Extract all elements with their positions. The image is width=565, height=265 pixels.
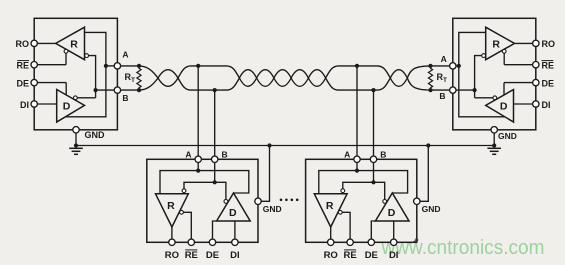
pin DI U1 <box>37 103 56 105</box>
node A junction U4 <box>355 169 359 173</box>
node stub A tap U4 <box>355 64 359 68</box>
wire twisted pair eyes middle <box>239 70 256 78</box>
wire pin B to node B U4 <box>373 163 375 183</box>
node bus A right junction <box>428 64 432 68</box>
node B junction U3 <box>213 180 217 184</box>
wire pin A to node A U4 <box>356 163 358 171</box>
wire DE to driver top edge U2 <box>503 83 505 95</box>
wire pin A of U1 to bus <box>121 65 139 67</box>
svg-text:GND: GND <box>85 130 106 140</box>
pin DE U3 <box>213 221 217 239</box>
receiver inverting input bubble U4 <box>341 189 345 193</box>
wire GND to ground bus U4 <box>420 146 428 202</box>
svg-text:RT: RT <box>125 72 136 84</box>
wire node A to pin A U1 <box>106 65 114 67</box>
op-amp D driver triangle U2 <box>486 90 514 123</box>
pin RE U2 <box>504 64 533 66</box>
wire driver inverting output bubble to node B net U1 <box>77 97 95 99</box>
wire receiver inverting input to node B U2 <box>475 56 482 98</box>
pin B U3 <box>212 156 218 162</box>
pin RO U3 <box>171 227 173 239</box>
pin RO U1 <box>37 42 55 44</box>
ground bus junction at U2 <box>492 143 496 147</box>
node bus A left junction <box>137 64 141 68</box>
ground bus junction U3 <box>267 143 271 147</box>
svg-text:D: D <box>229 207 237 219</box>
pin DE U4 <box>371 221 375 239</box>
op-amp R receiver triangle U2 <box>486 27 515 60</box>
svg-text:A: A <box>344 150 350 160</box>
wire node A to receiver input U4 <box>319 171 357 194</box>
receiver enable bubble U2 <box>502 49 506 53</box>
wire twisted pair eye right <box>390 70 407 78</box>
wire node B to pin B U1 <box>96 89 115 91</box>
pin RO U2 <box>515 42 533 44</box>
ellipsis dots more nodes <box>280 199 283 202</box>
wire receiver inverting input to node B U1 <box>89 56 96 98</box>
transceiver U2 package outline <box>453 18 536 130</box>
op-amp D driver triangle U4 <box>375 193 409 221</box>
pin RO U4 <box>330 227 332 239</box>
receiver inverting input bubble U1 <box>85 54 89 58</box>
wire receiver non-inverting input / driver output to node A U1 <box>65 32 106 116</box>
wire node A to driver output apex U3 <box>198 171 249 193</box>
pin GND U3 <box>255 198 261 204</box>
svg-text:DI: DI <box>542 100 551 110</box>
pin B U4 <box>370 156 376 162</box>
wire node B to receiver inverting bubble U3 <box>184 182 215 188</box>
svg-text:RO: RO <box>542 39 556 49</box>
svg-text:DE: DE <box>365 250 378 261</box>
pin RE U1 <box>37 64 66 66</box>
pin GND U1 <box>73 127 79 133</box>
driver inverting output bubble U1 <box>74 96 78 100</box>
wire pin A to node A U3 <box>197 163 199 171</box>
wire node B to driver inverting bubble U4 <box>374 182 385 199</box>
pin DE U2 <box>504 82 533 84</box>
wire stub B down to U3 <box>214 90 216 156</box>
pin DI U2 <box>514 103 533 105</box>
svg-text:RT: RT <box>437 72 448 84</box>
wire DE to driver top edge U1 <box>65 83 67 95</box>
svg-text:DE: DE <box>542 78 555 88</box>
wire twisted pair exit to RT2 <box>407 66 430 78</box>
svg-text:RE: RE <box>16 61 29 71</box>
svg-text:R: R <box>167 200 175 212</box>
svg-text:DI: DI <box>389 250 399 261</box>
svg-text:RE: RE <box>343 250 356 261</box>
wire RE to receiver enable bubble U1 <box>65 53 67 64</box>
node stub B tap U3 <box>213 88 217 92</box>
svg-text:D: D <box>388 207 396 219</box>
wire stub A down to U3 <box>197 66 199 156</box>
svg-text:GND: GND <box>422 204 441 214</box>
wire driver inverting output bubble to node B net U2 <box>475 97 493 99</box>
svg-text:B: B <box>380 150 386 160</box>
node stub B tap U4 <box>371 88 375 92</box>
svg-text:DE: DE <box>16 78 29 88</box>
driver inverting output bubble U4 <box>383 200 387 204</box>
transceiver U4 package outline <box>306 159 417 242</box>
svg-text:RO: RO <box>324 250 338 261</box>
wire node A to driver output apex U4 <box>357 171 408 193</box>
node bus B left junction <box>137 88 141 92</box>
svg-text:DE: DE <box>206 250 219 261</box>
op-amp D driver triangle U1 <box>57 90 85 123</box>
resistor RT1 termination left <box>137 66 141 90</box>
ground symbol U1 <box>69 147 83 149</box>
pin B U2 <box>450 87 456 93</box>
pin DE U1 <box>37 82 66 84</box>
wire node B to pin B U2 <box>456 89 475 91</box>
svg-text:R: R <box>326 200 334 212</box>
node A junction U2 <box>457 64 461 68</box>
node B junction U1 <box>94 88 98 92</box>
svg-text:B: B <box>222 150 228 160</box>
pin DI U3 <box>234 221 236 239</box>
ground bus junction U4 <box>426 143 430 147</box>
svg-text:B: B <box>122 93 128 103</box>
wire twisted pair entry from RT1 <box>139 66 158 78</box>
wire node B to receiver inverting bubble U4 <box>343 182 374 188</box>
svg-text:R: R <box>70 38 78 50</box>
svg-text:GND: GND <box>263 204 282 214</box>
node B junction U2 <box>473 88 477 92</box>
op-amp D driver triangle U3 <box>217 193 251 221</box>
wire receiver non-inverting input / driver output to node A U2 <box>459 32 505 116</box>
cursor arrow artifact <box>411 239 418 243</box>
receiver enable bubble U1 <box>64 49 68 53</box>
svg-text:RE: RE <box>542 61 555 71</box>
pin DI U4 <box>393 221 395 239</box>
wire GND to ground bus U3 <box>261 146 269 202</box>
svg-text:www.cntronics.com: www.cntronics.com <box>381 237 545 259</box>
pin RE U3 <box>184 212 192 239</box>
node B junction U4 <box>371 180 375 184</box>
wire pin B to node B U3 <box>214 163 216 183</box>
svg-text:GND: GND <box>498 131 517 141</box>
wire ground bus <box>76 145 494 147</box>
wire twisted pair stub lens over U4 <box>326 66 391 78</box>
svg-text:DI: DI <box>230 250 240 261</box>
wire RE to receiver enable bubble U2 <box>503 53 505 64</box>
ground bus junction at U1 <box>74 143 78 147</box>
svg-text:RE: RE <box>185 250 198 261</box>
svg-text:B: B <box>439 91 445 101</box>
transceiver U3 package outline <box>147 159 258 242</box>
svg-text:A: A <box>185 150 191 160</box>
op-amp R receiver triangle U1 <box>56 27 85 60</box>
node stub A tap U3 <box>196 64 200 68</box>
svg-text:A: A <box>122 50 128 60</box>
op-amp R receiver triangle U4 <box>314 194 347 227</box>
transceiver U1 package outline <box>34 18 117 130</box>
svg-text:DI: DI <box>20 100 29 110</box>
svg-text:D: D <box>500 101 508 113</box>
svg-text:RO: RO <box>165 250 179 261</box>
wire twisted pair eye 1 <box>158 70 178 78</box>
wire node A to pin A U2 <box>456 65 459 67</box>
wire GND pin down to ground bus U1 <box>75 133 77 146</box>
svg-text:R: R <box>492 38 500 50</box>
receiver enable bubble U4 <box>338 210 342 214</box>
pin GND U4 <box>414 198 420 204</box>
wire pin B of U1 to bus <box>121 89 139 91</box>
svg-text:A: A <box>441 54 447 64</box>
wire GND pin down to ground bus U2 <box>493 133 495 146</box>
svg-text:D: D <box>63 101 71 113</box>
driver inverting output bubble U3 <box>224 200 228 204</box>
receiver inverting input bubble U3 <box>182 189 186 193</box>
wire pin B of U2 to bus <box>431 89 450 91</box>
wire stub B down to U4 <box>373 90 375 156</box>
svg-text:RO: RO <box>16 39 30 49</box>
pin A U4 <box>354 156 360 162</box>
receiver inverting input bubble U2 <box>482 54 486 58</box>
wire node A to receiver input U3 <box>160 171 198 194</box>
wire stub A down to U4 <box>356 66 358 156</box>
pin A U2 <box>450 63 456 69</box>
pin GND U2 <box>491 127 497 133</box>
pin B U1 <box>114 87 120 93</box>
op-amp R receiver triangle U3 <box>156 194 189 227</box>
pin A U1 <box>114 63 120 69</box>
wire pin A of U2 to bus <box>431 65 450 67</box>
receiver enable bubble U3 <box>180 210 184 214</box>
resistor RT2 termination right <box>428 66 432 90</box>
node bus B right junction <box>428 88 432 92</box>
pin A U3 <box>195 156 201 162</box>
driver inverting output bubble U2 <box>493 96 497 100</box>
wire twisted pair stub lens over U3 <box>178 66 239 78</box>
pin RE U4 <box>342 212 350 239</box>
node A junction U1 <box>104 64 108 68</box>
wire node B to driver inverting bubble U3 <box>215 182 226 199</box>
ground symbol U2 <box>487 147 501 149</box>
node A junction U3 <box>196 169 200 173</box>
